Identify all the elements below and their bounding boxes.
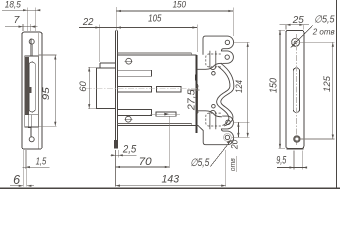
svg-text:25: 25: [292, 15, 304, 26]
svg-text:∅5,5: ∅5,5: [190, 157, 209, 169]
svg-text:∅5,5: ∅5,5: [314, 15, 335, 26]
svg-text:105: 105: [148, 13, 162, 24]
svg-text:1,5: 1,5: [36, 156, 47, 167]
svg-text:150: 150: [269, 78, 280, 93]
svg-text:22: 22: [82, 17, 94, 28]
svg-text:70: 70: [139, 156, 152, 168]
svg-text:6: 6: [13, 173, 20, 187]
svg-text:9,5: 9,5: [276, 155, 286, 167]
svg-text:125: 125: [322, 75, 333, 92]
svg-text:95: 95: [41, 86, 51, 100]
svg-text:124: 124: [234, 80, 245, 93]
svg-text:150: 150: [173, 0, 187, 10]
svg-text:отв: отв: [228, 158, 237, 171]
svg-text:20: 20: [229, 140, 239, 150]
svg-text:27,5: 27,5: [187, 89, 198, 111]
svg-text:60: 60: [78, 81, 88, 92]
svg-text:18,5: 18,5: [5, 0, 22, 10]
svg-text:143: 143: [162, 174, 180, 186]
svg-text:2,5: 2,5: [122, 144, 137, 156]
svg-text:2 отв: 2 отв: [312, 27, 335, 37]
